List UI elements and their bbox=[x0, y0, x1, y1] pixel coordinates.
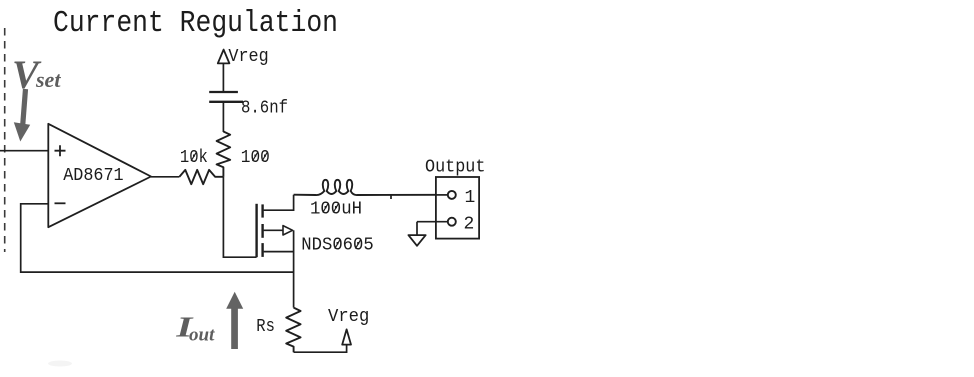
op-amp U1 bbox=[48, 124, 151, 227]
faint smudge bbox=[48, 361, 72, 367]
op-amp plus pin bbox=[55, 145, 66, 156]
transistor channel segment bottom bbox=[261, 243, 263, 257]
wire Rs to Vreg bbox=[294, 345, 347, 353]
svg-text:set: set bbox=[35, 67, 61, 92]
connector J1 Output box bbox=[436, 177, 479, 239]
power symbol Vreg (top) bbox=[218, 50, 230, 64]
svg-text:out: out bbox=[189, 325, 215, 346]
arrow Iout (points up) bbox=[226, 292, 243, 349]
pin 2 lead bbox=[417, 221, 448, 223]
resistor R 100 (vertical) bbox=[217, 132, 231, 177]
transistor Q1 NDS0605 gate bar bbox=[255, 204, 257, 257]
svg-text:Current Regulation: Current Regulation bbox=[53, 6, 338, 41]
svg-text:NDS0605: NDS0605 bbox=[301, 236, 373, 256]
svg-text:AD8671: AD8671 bbox=[63, 166, 123, 186]
wire + input bbox=[0, 150, 48, 152]
wire Vreg stem bbox=[222, 63, 224, 92]
svg-text:100: 100 bbox=[241, 148, 270, 168]
svg-text:10k: 10k bbox=[180, 148, 208, 168]
dashed page-boundary line bbox=[4, 28, 6, 252]
ground bbox=[408, 235, 425, 246]
capacitor C 8.6nf bbox=[209, 92, 243, 102]
wire op-amp output bbox=[151, 176, 179, 178]
svg-text:8.6nf: 8.6nf bbox=[241, 99, 288, 119]
svg-text:100uH: 100uH bbox=[310, 200, 362, 220]
transistor body lead with arrow bbox=[264, 229, 283, 231]
wire source lead bbox=[264, 251, 294, 253]
pin 1 circle bbox=[448, 191, 456, 199]
op-amp minus pin bbox=[55, 202, 66, 204]
resistor Rs bbox=[286, 308, 300, 353]
inductor L 100uH bbox=[294, 180, 436, 195]
resistor R 10k bbox=[179, 170, 223, 184]
wire drain lead bbox=[264, 195, 294, 211]
wire capacitor to resistor bbox=[222, 102, 224, 132]
svg-text:1: 1 bbox=[465, 188, 476, 208]
wire minus-input feedback bbox=[21, 204, 294, 272]
power symbol Vreg (bottom) bbox=[342, 329, 351, 344]
wire pin2 to ground bbox=[416, 222, 418, 235]
junction tick bbox=[390, 195, 392, 199]
pin 2 circle bbox=[448, 218, 456, 226]
zero slashes (slashed-zero font detail) bbox=[191, 152, 361, 249]
transistor channel segment top bbox=[261, 204, 263, 217]
transistor channel segment middle bbox=[261, 224, 263, 238]
wire source column bbox=[293, 230, 295, 307]
svg-text:Vreg: Vreg bbox=[328, 307, 369, 327]
arrow Vset (points down) bbox=[23, 89, 26, 124]
pin 1 lead bbox=[436, 194, 448, 196]
svg-text:Output: Output bbox=[425, 158, 485, 178]
svg-text:Rs: Rs bbox=[256, 317, 275, 337]
wire gate feed bbox=[223, 177, 256, 257]
svg-text:2: 2 bbox=[464, 215, 475, 235]
svg-text:Vreg: Vreg bbox=[228, 47, 268, 67]
